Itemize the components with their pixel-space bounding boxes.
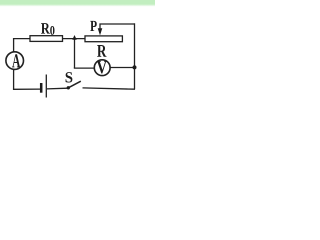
- wire: bottom left to battery: [13, 88, 40, 90]
- green header band: [0, 0, 155, 7]
- label P: [90, 21, 97, 31]
- voltmeter V1 circle: [94, 60, 110, 76]
- label R0: [41, 23, 50, 33]
- switch pivot dot: [67, 86, 70, 89]
- wire: top-left horizontal to R0: [13, 38, 30, 40]
- label A (ammeter): [12, 54, 20, 67]
- background: [0, 0, 155, 107]
- switch blade S: [68, 81, 81, 88]
- wire: switch to bottom-right corner: [83, 88, 136, 89]
- wire: voltmeter branch horizontal left: [74, 67, 95, 69]
- wire: voltmeter to right rail: [110, 67, 134, 69]
- wire: ammeter down to bottom-left corner: [13, 69, 15, 89]
- wire: battery to switch pivot: [47, 87, 68, 90]
- junction dot right rail / voltmeter: [133, 65, 137, 69]
- label R (rheostat): [97, 45, 106, 57]
- wire: slider P up and right to rail: [100, 24, 135, 33]
- battery positive long plate: [45, 75, 47, 98]
- wire: top-left corner down to ammeter: [13, 39, 15, 52]
- wire: node to voltmeter branch (vertical): [74, 39, 76, 69]
- junction arrow at node between R0 and R: [72, 35, 76, 40]
- label V (voltmeter): [97, 61, 107, 73]
- resistor R0: [30, 36, 63, 42]
- label S (switch): [66, 72, 73, 82]
- rheostat R body: [85, 36, 122, 42]
- battery negative short thick plate: [40, 83, 43, 93]
- wire: R0 to rheostat R: [63, 38, 86, 40]
- wire: right rail vertical: [134, 23, 136, 89]
- ammeter A1 circle: [6, 52, 24, 70]
- slider arrowhead P: [98, 28, 103, 35]
